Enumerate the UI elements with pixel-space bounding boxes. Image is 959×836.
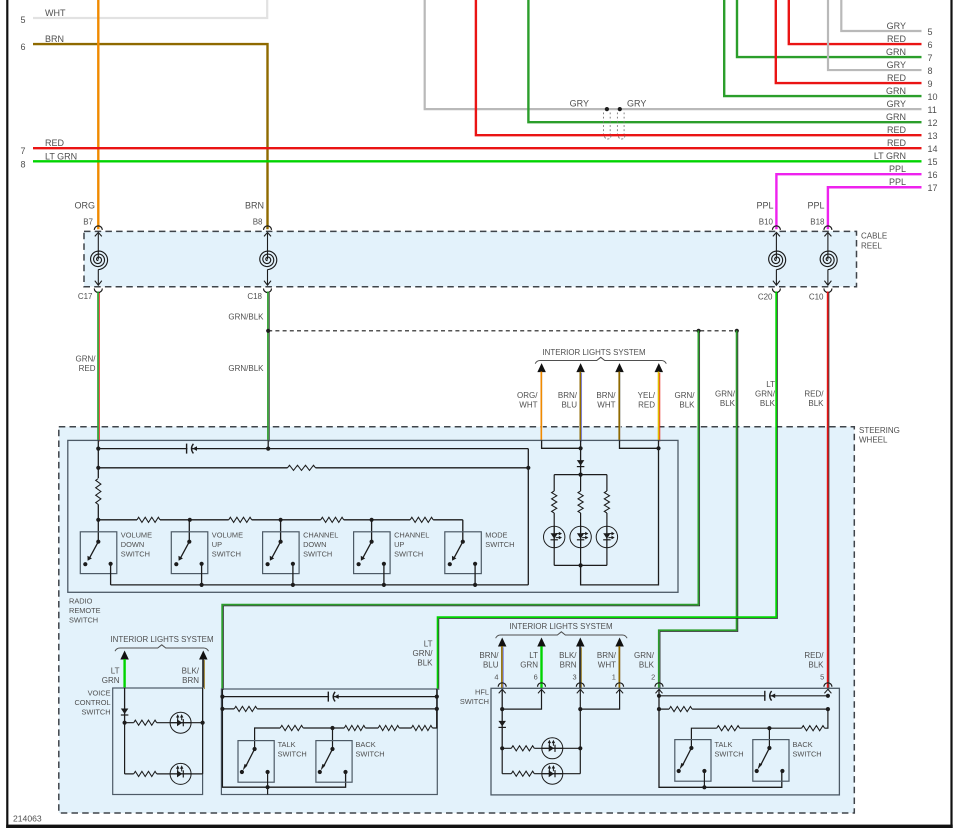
- wire led bottom rail: [554, 564, 607, 566]
- hfl dot branch: [500, 746, 504, 750]
- svg-text:RADIO: RADIO: [69, 597, 93, 606]
- wire GRY to row5: [841, 0, 921, 31]
- brace top: [535, 357, 666, 363]
- wire BLK/BRN voice: [203, 659, 204, 689]
- resistor bus R1: [137, 516, 160, 524]
- label LT GRN/BLK right: [755, 380, 776, 408]
- arrow up hfl: [576, 638, 585, 647]
- GRY-GRY inline connector: [604, 107, 625, 139]
- HFL switch box: [491, 688, 839, 795]
- hfl bottom dot: [702, 785, 706, 789]
- resistor led mid: [577, 491, 585, 513]
- label VOLUME UP SWITCH: [212, 530, 243, 558]
- label BRN above B8: [245, 201, 264, 211]
- wire tb res line: [222, 708, 436, 710]
- svg-text:WHT: WHT: [598, 661, 616, 670]
- svg-text:GRN: GRN: [520, 661, 538, 670]
- back switch left: [316, 741, 352, 783]
- svg-text:RED: RED: [887, 73, 907, 83]
- wire hfl line3: [691, 709, 828, 750]
- junction dot res-right: [526, 466, 530, 470]
- wire LT GRN/BLK C20 to talk box: [438, 292, 778, 691]
- svg-text:SWITCH: SWITCH: [278, 750, 307, 759]
- junction dot res-left: [96, 466, 100, 470]
- wire tb cap line: [222, 696, 436, 698]
- voice control switch box: [113, 688, 203, 795]
- label RED/BLK right: [804, 390, 824, 409]
- svg-text:BLK: BLK: [760, 399, 776, 408]
- wire drop to mode switch: [462, 520, 464, 542]
- wire led return loop: [581, 448, 659, 585]
- arrow up BRN/WHT: [615, 363, 624, 372]
- svg-text:12: 12: [928, 118, 938, 128]
- svg-text:BACK: BACK: [793, 740, 813, 749]
- radio remote switch box: [68, 440, 678, 592]
- wire led branch right: [606, 475, 608, 566]
- label BRN/WHT hfl: [597, 651, 617, 670]
- svg-text:SWITCH: SWITCH: [121, 550, 150, 559]
- svg-text:LT GRN: LT GRN: [874, 151, 906, 161]
- svg-text:BLK: BLK: [679, 401, 695, 410]
- svg-text:BRN/: BRN/: [596, 391, 616, 400]
- hfl cap dot l: [657, 694, 661, 698]
- svg-text:GRN/: GRN/: [634, 651, 655, 660]
- svg-text:GRY: GRY: [887, 99, 906, 109]
- LED hfl 2: [542, 763, 563, 784]
- resistor tb3 b: [344, 724, 365, 732]
- svg-text:BLK/: BLK/: [559, 651, 577, 660]
- channel down switch (CHANNEL DOWN SWITCH): [263, 532, 300, 574]
- wire PPL row16 to B10: [776, 174, 921, 229]
- arrow up YEL/RED: [655, 363, 664, 372]
- svg-text:6: 6: [928, 40, 933, 50]
- cable reel coil B8-C18: [260, 226, 277, 293]
- svg-text:10: 10: [928, 92, 938, 102]
- svg-text:SWITCH: SWITCH: [356, 750, 385, 759]
- label PPL above B10: [756, 201, 773, 211]
- svg-text:6: 6: [21, 42, 26, 52]
- svg-text:RED: RED: [887, 34, 907, 44]
- resistor bus R3: [321, 516, 344, 524]
- svg-text:RED/: RED/: [804, 651, 824, 660]
- pin numbers hfl: [494, 673, 824, 682]
- junction dot led bottom: [579, 563, 583, 567]
- svg-text:13: 13: [928, 131, 938, 141]
- talk switch left: [238, 741, 274, 783]
- svg-text:GRN: GRN: [886, 112, 906, 122]
- resistor tb3 d: [411, 724, 432, 732]
- bottom bus dot: [473, 583, 477, 587]
- resistor tb3 a: [280, 724, 303, 732]
- resistor R radio top: [288, 464, 316, 472]
- svg-text:REEL: REEL: [861, 242, 882, 251]
- svg-text:GRN/: GRN/: [76, 355, 97, 364]
- wire hfl left rail lower: [501, 748, 503, 773]
- svg-text:C10: C10: [809, 293, 824, 302]
- svg-text:DOWN: DOWN: [121, 540, 144, 549]
- wire GRN to row10: [724, 0, 921, 96]
- svg-text:PPL: PPL: [889, 177, 906, 187]
- hfl dot pin3: [578, 707, 582, 711]
- svg-text:5: 5: [21, 15, 26, 25]
- LED voice 1: [170, 712, 191, 733]
- pin entry hfl: [498, 683, 506, 694]
- wire channel down switch output: [292, 564, 294, 585]
- label TALK SWITCH left: [278, 740, 307, 759]
- resistor bus R4: [410, 516, 433, 524]
- svg-text:GRN: GRN: [886, 86, 906, 96]
- wire BRN/WHT: [619, 372, 620, 442]
- wire GRN/BLK to HFL pin2: [659, 331, 738, 690]
- svg-text:DOWN: DOWN: [303, 540, 326, 549]
- wire GRN/BLK entry stub: [267, 440, 269, 448]
- label PPL above B18: [807, 201, 824, 211]
- resistor voice R2: [134, 770, 157, 778]
- svg-text:GRN: GRN: [886, 47, 906, 57]
- talk-back box left: [221, 689, 437, 795]
- svg-text:LT: LT: [766, 380, 775, 389]
- volume down switch (VOLUME DOWN SWITCH): [80, 532, 117, 574]
- arrow up LT GRN: [120, 651, 129, 660]
- label BRN/BLU: [558, 391, 578, 410]
- capacitor C radio: [187, 443, 197, 454]
- wire mode switch output: [474, 564, 476, 585]
- label B8: [253, 218, 263, 227]
- label LT GRN voice: [102, 667, 120, 686]
- svg-text:REMOTE: REMOTE: [69, 606, 101, 615]
- wire drop to volume down switch: [97, 520, 99, 542]
- tb dot cap left: [220, 695, 224, 699]
- arrow up BRN/BLU: [576, 363, 585, 372]
- LED lamp mid: [570, 526, 591, 547]
- cable reel coil B7-C17: [91, 226, 108, 293]
- label RADIO REMOTE SWITCH: [69, 597, 101, 625]
- GRY connector labels: [570, 99, 647, 109]
- svg-text:VOLUME: VOLUME: [121, 530, 152, 539]
- wire voice left rail lower: [124, 723, 126, 774]
- page bottom bar: [6, 825, 953, 828]
- svg-text:5: 5: [928, 27, 933, 37]
- svg-text:PPL: PPL: [807, 201, 824, 211]
- junction dot voice right: [201, 721, 205, 725]
- cable reel box: [84, 231, 857, 286]
- wire BRN/WHT hfl: [619, 646, 620, 689]
- wire ORG/WHT: [541, 372, 542, 442]
- bottom bus dot: [382, 583, 386, 587]
- resistor tb: [234, 705, 257, 713]
- wire voice branch2: [125, 773, 203, 775]
- label C17: [78, 292, 93, 301]
- svg-text:RED: RED: [887, 138, 907, 148]
- right edge pin labels: [874, 21, 938, 193]
- resistor hfl R1: [511, 745, 534, 753]
- label BLK/BRN hfl: [559, 651, 577, 670]
- svg-text:LT GRN: LT GRN: [45, 151, 77, 161]
- wire left rail to bus: [97, 505, 99, 520]
- wire WHT row5 left: [33, 0, 267, 18]
- wire hfl talk out: [703, 771, 705, 787]
- wire voice left rail: [124, 688, 126, 723]
- label C18: [247, 292, 262, 301]
- svg-text:BRN: BRN: [182, 676, 199, 685]
- label MODE SWITCH: [485, 530, 514, 549]
- svg-text:GRN/BLK: GRN/BLK: [228, 364, 264, 373]
- resistor led right: [603, 491, 611, 513]
- left edge pin labels: [21, 8, 78, 169]
- svg-text:YEL/: YEL/: [638, 391, 656, 400]
- svg-text:CABLE: CABLE: [861, 232, 887, 241]
- svg-text:ORG: ORG: [74, 201, 95, 211]
- hfl res dot r: [826, 707, 830, 711]
- svg-text:CONTROL: CONTROL: [74, 698, 110, 707]
- junction dot jumper 698: [697, 329, 701, 333]
- wire RED to row13: [476, 0, 922, 135]
- svg-text:BLU: BLU: [561, 401, 577, 410]
- wire hfl pin4 rail: [501, 690, 503, 748]
- page right border: [950, 0, 952, 828]
- junction dot cap-left: [96, 447, 100, 451]
- svg-text:BLK/: BLK/: [182, 667, 200, 676]
- svg-text:3: 3: [572, 673, 576, 682]
- wire LT GRN voice: [123, 659, 125, 688]
- bus dot channel down: [279, 518, 283, 522]
- svg-text:BLK: BLK: [417, 659, 433, 668]
- label BRN/WHT: [596, 391, 616, 410]
- wire GRN/BLK C18 down: [268, 292, 269, 442]
- wire BRN row6 left to B8: [33, 44, 268, 229]
- wire led branch mid: [580, 475, 582, 566]
- drawing number 214063: [13, 814, 42, 824]
- bottom bus dot: [291, 583, 295, 587]
- label C10: [809, 293, 824, 302]
- resistor hfl3 b: [802, 724, 825, 732]
- resistor bus R2: [229, 516, 252, 524]
- junction dot jumper 737: [735, 329, 739, 333]
- wire tb bottom stub: [267, 787, 269, 794]
- label LT GRN hfl: [520, 651, 538, 670]
- label STEERING WHEEL: [859, 426, 900, 445]
- arrow up hfl: [498, 638, 507, 647]
- bus dot channel up: [370, 518, 374, 522]
- resistor hfl R2: [511, 770, 534, 778]
- label RED/BLK hfl: [804, 651, 824, 670]
- svg-text:TALK: TALK: [715, 740, 733, 749]
- junction dot rail-bus: [96, 518, 100, 522]
- wire resistor line: [98, 467, 528, 469]
- junction dot voice: [123, 721, 127, 725]
- label VOICE CONTROL SWITCH: [74, 689, 110, 717]
- cable reel coil B18-C10: [820, 226, 837, 293]
- diode D radio leds: [577, 460, 585, 467]
- label VOLUME DOWN SWITCH: [121, 530, 152, 558]
- svg-text:RED: RED: [638, 401, 655, 410]
- svg-text:BACK: BACK: [356, 740, 376, 749]
- wire GRY to row8: [828, 0, 922, 70]
- svg-text:14: 14: [928, 144, 938, 154]
- wire RED row7-14 full width: [33, 147, 922, 149]
- svg-text:BRN: BRN: [45, 34, 64, 44]
- label INTERIOR LIGHTS SYSTEM top: [542, 348, 645, 357]
- wire voice branch1: [125, 722, 203, 724]
- svg-text:BRN/: BRN/: [558, 391, 578, 400]
- svg-text:BRN: BRN: [245, 201, 264, 211]
- resistor tb3 c: [378, 724, 399, 732]
- wire cap line: [98, 448, 528, 450]
- wire YEL/RED drop: [658, 440, 660, 448]
- svg-text:LT: LT: [111, 667, 120, 676]
- resistor R series vertical: [95, 479, 103, 505]
- arrow up hfl: [615, 638, 624, 647]
- pin entry hfl: [655, 683, 663, 694]
- mode switch (MODE SWITCH): [445, 532, 482, 574]
- svg-text:BLK: BLK: [808, 661, 824, 670]
- wire hfl branch2: [502, 773, 580, 775]
- wire hfl pin1 join: [580, 690, 619, 709]
- diode D hfl: [498, 721, 506, 728]
- LED voice 2: [170, 763, 191, 784]
- page left border: [6, 0, 8, 828]
- wire bottom bus radio: [111, 584, 529, 586]
- wire BLK/BRN hfl: [580, 646, 581, 689]
- label CHANNEL DOWN SWITCH: [303, 530, 338, 558]
- label B7: [83, 218, 93, 227]
- svg-text:17: 17: [928, 183, 938, 193]
- svg-text:GRY: GRY: [887, 21, 906, 31]
- svg-text:HFL: HFL: [475, 688, 489, 697]
- cable reel coil B10-C20: [769, 226, 786, 293]
- back switch hfl: [753, 740, 789, 782]
- channel up switch (CHANNEL UP SWITCH): [354, 532, 391, 574]
- svg-text:CHANNEL: CHANNEL: [303, 530, 338, 539]
- svg-text:BRN/: BRN/: [597, 651, 617, 660]
- svg-text:GRN/BLK: GRN/BLK: [228, 313, 264, 322]
- svg-text:SWITCH: SWITCH: [715, 750, 744, 759]
- wire RED to row6: [789, 0, 922, 44]
- svg-text:B7: B7: [83, 218, 93, 227]
- wire hfl cap line: [659, 695, 828, 697]
- svg-text:INTERIOR LIGHTS SYSTEM: INTERIOR LIGHTS SYSTEM: [509, 622, 612, 631]
- svg-text:INTERIOR LIGHTS SYSTEM: INTERIOR LIGHTS SYSTEM: [542, 348, 645, 357]
- capacitor hfl: [765, 690, 775, 701]
- resistor led left: [550, 491, 558, 513]
- svg-text:C18: C18: [247, 292, 262, 301]
- svg-text:11: 11: [928, 105, 937, 115]
- wire BRN/BLU hfl: [502, 646, 503, 689]
- svg-text:214063: 214063: [13, 814, 42, 824]
- hfl dot line3: [767, 726, 771, 730]
- wire channel up switch output: [383, 564, 385, 585]
- label GRN/RED: [76, 355, 97, 374]
- wire right rail radio: [527, 449, 529, 585]
- svg-text:7: 7: [21, 146, 26, 156]
- label LT GRN/BLK at talk box: [413, 640, 434, 668]
- label TALK SWITCH hfl: [715, 740, 744, 759]
- label C20: [758, 293, 773, 302]
- wire GRN/BLK to talk box: [222, 331, 700, 691]
- label INTERIOR LIGHTS SYSTEM voice: [110, 635, 213, 644]
- svg-text:PPL: PPL: [889, 164, 906, 174]
- svg-text:BLK: BLK: [808, 399, 824, 408]
- wire RED to row9: [776, 0, 922, 83]
- bottom bus dot: [200, 583, 204, 587]
- svg-text:LT: LT: [529, 651, 538, 660]
- node dot YEL/RED: [656, 446, 660, 450]
- wire volume down switch output: [110, 564, 112, 585]
- svg-text:PPL: PPL: [756, 201, 773, 211]
- wire PPL row17 to B18: [828, 187, 922, 229]
- wire back drop: [332, 728, 334, 749]
- svg-text:RED: RED: [887, 125, 907, 135]
- svg-text:LT: LT: [424, 640, 433, 649]
- wire hfl pin2 rail: [659, 690, 782, 787]
- svg-text:GRN/: GRN/: [675, 391, 696, 400]
- arrow up hfl: [537, 638, 546, 647]
- svg-text:RED: RED: [79, 364, 96, 373]
- wire tb line3: [255, 709, 437, 749]
- svg-text:BLK: BLK: [639, 661, 655, 670]
- LED hfl 1: [542, 738, 563, 759]
- svg-text:15: 15: [928, 157, 938, 167]
- wire tb right rail: [436, 689, 438, 728]
- svg-text:STEERING: STEERING: [859, 426, 900, 435]
- svg-text:VOLUME: VOLUME: [212, 530, 243, 539]
- svg-text:GRN/: GRN/: [413, 649, 434, 658]
- dashed jumper GRN/BLK: [268, 330, 737, 332]
- label BACK SWITCH left: [356, 740, 385, 759]
- svg-text:UP: UP: [394, 540, 404, 549]
- talk switch hfl: [675, 740, 711, 782]
- wire LT GRN row8-15 full width: [33, 160, 922, 162]
- hfl dot branch right: [578, 746, 582, 750]
- svg-text:2: 2: [651, 673, 655, 682]
- svg-text:GRN/: GRN/: [755, 390, 776, 399]
- svg-text:UP: UP: [212, 540, 222, 549]
- svg-text:GRN: GRN: [102, 676, 120, 685]
- hfl cap dot r: [826, 694, 830, 698]
- wire hfl back drop: [768, 728, 770, 750]
- wire GRN to row12: [528, 0, 921, 122]
- svg-text:BLU: BLU: [483, 661, 499, 670]
- svg-text:SWITCH: SWITCH: [793, 750, 822, 759]
- junction dot led top rail: [579, 473, 583, 477]
- label GRN/BLK hfl: [634, 651, 655, 670]
- svg-text:WHT: WHT: [45, 8, 66, 18]
- tb dot line3: [330, 726, 334, 730]
- wire switch bus: [98, 519, 463, 521]
- wire GRN/RED entry stub: [97, 440, 99, 448]
- label BLK/BRN voice: [182, 667, 200, 686]
- bus dot volume up: [188, 518, 192, 522]
- wire GRY to row11: [425, 0, 922, 109]
- wire BRN/BLU drop: [580, 440, 582, 448]
- label CABLE REEL: [861, 232, 887, 251]
- svg-text:6: 6: [534, 673, 538, 682]
- svg-text:GRN/: GRN/: [715, 390, 736, 399]
- junction dot cap-C18: [266, 447, 270, 451]
- wire YEL/RED: [659, 372, 660, 442]
- wire hfl branch1: [502, 747, 580, 749]
- svg-text:SWITCH: SWITCH: [460, 697, 489, 706]
- label B18: [810, 218, 825, 227]
- wire LT GRN hfl: [540, 646, 542, 688]
- wire GRN/RED C17 down: [98, 292, 99, 442]
- svg-text:B8: B8: [253, 218, 263, 227]
- junction dot C18 jumper: [266, 329, 270, 333]
- node dot BRN/BLU: [579, 446, 583, 450]
- wire tb left rail: [222, 689, 345, 787]
- svg-text:B18: B18: [810, 218, 825, 227]
- LED lamp left: [544, 526, 565, 547]
